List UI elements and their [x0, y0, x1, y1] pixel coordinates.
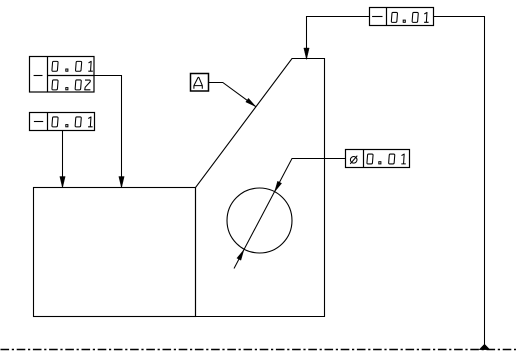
feature control frame FCF3 (straightness 0.01, top right) — [370, 8, 434, 26]
FCF4 leader (horizontal then diagonal through circle) — [234, 159, 346, 269]
datum A leader arrowhead — [246, 98, 256, 106]
datum plane (dash-dot line at bottom) — [1, 349, 517, 351]
diameter tolerance frame FCF4 — [346, 150, 410, 168]
straightness symbol in FCF3 — [372, 16, 382, 18]
datum A leader — [209, 83, 256, 107]
FCF3 value 0.01 — [391, 12, 428, 22]
datum feature box A — [191, 74, 209, 92]
FCF4 value 0.01 — [367, 154, 406, 164]
feature control frame FCF2 (straightness 0.01) — [30, 113, 95, 131]
FCF1 leader (right then down to top face) — [94, 76, 122, 188]
diameter symbol — [350, 156, 357, 164]
FCF1 value 0.01 — [52, 61, 93, 71]
diameter line arrowhead upper — [275, 181, 282, 192]
diameter line arrowhead lower — [237, 250, 244, 261]
FCF3 left leader arrowhead — [304, 48, 309, 60]
letter A — [194, 77, 203, 88]
FCF3 right leader (to datum plane) — [434, 17, 485, 350]
feature control frame FCF1 (straightness 0.01 / 0.02, stacked) — [30, 57, 95, 93]
filled datum triangle on datum plane — [479, 344, 490, 350]
FCF2 leader arrowhead — [60, 177, 65, 189]
FCF2 value 0.01 — [52, 117, 93, 127]
FCF3 left leader (to small top face) — [307, 17, 370, 60]
FCF1 value 0.02 — [52, 80, 90, 90]
hole circle — [227, 188, 292, 253]
part outline: left rectangle — [34, 188, 196, 317]
straightness symbol in FCF1 — [34, 75, 43, 77]
part outline: right block with chamfered (sloped) top-left edge — [196, 59, 325, 317]
FCF2 leader (down to top face) — [62, 131, 64, 188]
straightness symbol in FCF2 — [34, 121, 43, 123]
FCF1 leader arrowhead — [119, 177, 124, 189]
